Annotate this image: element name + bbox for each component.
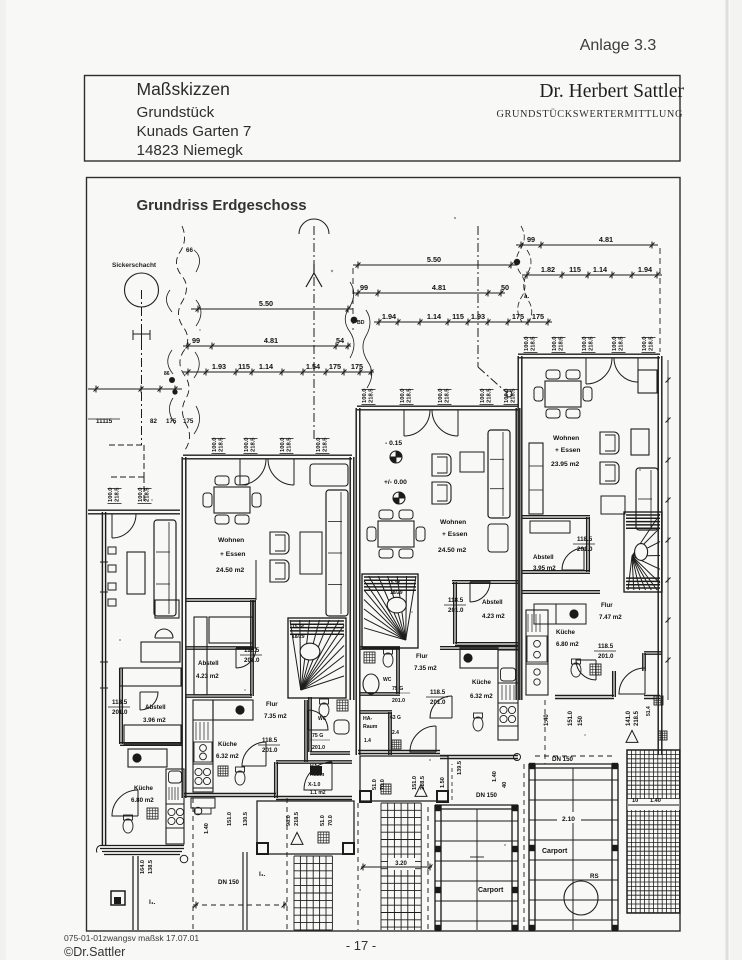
svg-text:Abstell: Abstell: [533, 554, 554, 561]
dashed line right of walkway B: [427, 807, 429, 930]
svg-text:218.5: 218.5: [369, 388, 375, 403]
svg-text:118.5: 118.5: [112, 699, 128, 706]
unit C kitchen wall: [522, 590, 600, 592]
svg-text:100.0: 100.0: [524, 336, 530, 351]
header box: [85, 76, 681, 162]
svg-text:Carport: Carport: [542, 848, 568, 855]
svg-text:51.0: 51.0: [320, 815, 326, 826]
svg-text:Flur: Flur: [416, 653, 428, 660]
svg-text:Wohnen: Wohnen: [440, 519, 466, 526]
unit C porch hatch small: [654, 696, 663, 705]
svg-text:RS: RS: [590, 873, 599, 880]
svg-text:218.5: 218.5: [294, 812, 300, 826]
svg-text:X-1.0: X-1.0: [308, 782, 321, 788]
unit B outline walls: [357, 405, 518, 407]
carport C circle: [564, 881, 598, 915]
svg-text:+ Essen: + Essen: [555, 447, 580, 454]
unit C hatch: [590, 664, 601, 675]
svg-text:Abstell: Abstell: [482, 599, 503, 606]
svg-text:6.80 m2: 6.80 m2: [131, 797, 154, 804]
unit B kitchen walls: [440, 646, 518, 648]
unit A front wall: [184, 793, 276, 795]
svg-text:218.5: 218.5: [287, 437, 293, 452]
unit A inner wall living: [186, 598, 256, 600]
svg-text:201.0: 201.0: [312, 745, 325, 751]
svg-text:75 G: 75 G: [312, 733, 323, 739]
plan frame box: [87, 178, 681, 932]
svg-text:2.4: 2.4: [392, 730, 399, 736]
svg-text:Sickerschacht: Sickerschacht: [112, 262, 157, 269]
svg-text:82: 82: [150, 418, 157, 425]
svg-text:14823 Niemegk: 14823 Niemegk: [137, 142, 244, 159]
svg-text:218.5: 218.5: [634, 710, 640, 726]
carport C labels: [557, 812, 581, 823]
unit A wc room: [308, 697, 310, 752]
svg-text:51.0: 51.0: [372, 779, 378, 790]
carport C top bar: [529, 763, 618, 765]
svg-text:201.0: 201.0: [262, 747, 278, 754]
dim line A 99 4.81 54: [183, 345, 351, 347]
svg-text:118.5: 118.5: [448, 597, 464, 604]
porch platform B: [360, 756, 448, 801]
svg-text:86: 86: [164, 371, 170, 377]
svg-text:5.50: 5.50: [427, 255, 441, 264]
svg-text:63 G: 63 G: [390, 715, 401, 721]
unit D entry arc: [112, 514, 136, 538]
svg-text:1.50: 1.50: [440, 777, 446, 788]
terrace grid right: [627, 750, 680, 913]
unit A sofa: [310, 464, 348, 486]
dim line left edge: [88, 388, 182, 390]
svg-text:100.0: 100.0: [212, 437, 218, 452]
unit C kitchen door: [576, 660, 596, 680]
unit D sofa end box: [155, 600, 179, 618]
svg-text:2.10: 2.10: [562, 816, 575, 823]
unit B armchairs: [432, 454, 451, 476]
unit B hatch oval bottom: [392, 740, 401, 749]
svg-text:- 17 -: - 17 -: [346, 938, 376, 953]
unit B abstell walls: [452, 580, 518, 582]
unit A outline walls: [183, 454, 352, 456]
carport C center line: [572, 768, 574, 930]
unit B kitchen door: [430, 696, 452, 718]
svg-text:100.0: 100.0: [400, 388, 406, 403]
unit C stair: [624, 512, 662, 592]
dim line B 99 4.81 50: [353, 292, 505, 294]
unit C entry door arc: [619, 668, 645, 694]
svg-text:1.82: 1.82: [541, 265, 555, 274]
svg-text:18/29: 18/29: [390, 590, 403, 596]
axis line A-B boundary: [352, 268, 354, 330]
svg-text:1.14: 1.14: [427, 312, 442, 321]
unit D shelf row: [124, 725, 181, 744]
svg-text:BD: BD: [357, 320, 365, 326]
svg-text:115: 115: [238, 362, 250, 371]
unit B kitchen counters: [498, 650, 518, 740]
unit A entry arcs: [240, 459, 266, 485]
svg-text:l₁.: l₁.: [149, 899, 156, 906]
svg-text:118.5: 118.5: [577, 536, 593, 543]
unit C sideboard: [638, 370, 657, 393]
dashed property line A porch: [192, 798, 194, 930]
svg-text:201.0: 201.0: [598, 653, 614, 660]
unit A dining table: [214, 487, 250, 513]
svg-text:3.95 m2: 3.95 m2: [533, 565, 556, 572]
unit C abstell wall: [522, 515, 590, 517]
unit C abstell door: [562, 548, 584, 570]
unit D front wall steps: [100, 845, 184, 847]
svg-text:100.0: 100.0: [438, 388, 444, 403]
unit C right dim chain: [667, 360, 669, 700]
svg-text:51.4: 51.4: [646, 706, 652, 716]
svg-text:218.5: 218.5: [115, 487, 121, 502]
unit B ha-raum: [360, 710, 392, 712]
dim line B 5.50: [353, 264, 516, 266]
porch platform A: [257, 801, 354, 854]
svg-text:100.0: 100.0: [582, 336, 588, 351]
svg-text:218.5: 218.5: [219, 437, 225, 452]
unit C wardrobe strip: [529, 443, 543, 514]
svg-text:5.50: 5.50: [259, 299, 273, 308]
unit A ha dark box: [310, 766, 322, 775]
svg-text:3.20: 3.20: [395, 861, 407, 867]
svg-text:70.0: 70.0: [328, 815, 334, 826]
unit A armchairs: [270, 532, 289, 554]
svg-text:175: 175: [351, 362, 363, 371]
svg-text:DN 150: DN 150: [476, 792, 498, 799]
unit D table: [127, 552, 145, 594]
carport C posts: [529, 763, 535, 769]
svg-text:99: 99: [192, 336, 200, 345]
svg-text:Wohnen: Wohnen: [218, 537, 244, 544]
svg-text:118.5: 118.5: [430, 689, 446, 696]
svg-text:1.40: 1.40: [492, 771, 498, 782]
svg-text:99: 99: [360, 283, 368, 292]
svg-text:Abstell: Abstell: [145, 704, 166, 711]
dashed boundary B-C porch: [523, 764, 525, 930]
Sickerschacht circle: [125, 273, 159, 307]
unit A wc door: [308, 710, 328, 730]
svg-text:201.0: 201.0: [430, 699, 446, 706]
svg-text:Kunads Garten 7: Kunads Garten 7: [137, 123, 252, 140]
unit A entry door: [304, 762, 332, 790]
svg-text:6.32 m2: 6.32 m2: [216, 753, 239, 760]
svg-text:Abstell: Abstell: [198, 660, 219, 667]
carport C rungs: [529, 779, 618, 781]
svg-text:175: 175: [183, 418, 194, 425]
center axis line: [313, 226, 315, 440]
svg-text:Wohnen: Wohnen: [553, 435, 579, 442]
svg-text:Maßskizzen: Maßskizzen: [137, 79, 230, 99]
svg-text:HA-: HA-: [363, 716, 372, 722]
svg-text:+ Essen: + Essen: [442, 531, 467, 538]
svg-text:164.0: 164.0: [140, 860, 146, 874]
scan streak right margin: [726, 0, 729, 960]
svg-text:Flur: Flur: [266, 701, 278, 708]
svg-text:1.93: 1.93: [212, 362, 226, 371]
boundary step at D corner: [109, 444, 144, 446]
svg-text:201.0: 201.0: [577, 546, 593, 553]
svg-text:75 G: 75 G: [392, 686, 403, 692]
blob at C start: [514, 259, 520, 265]
svg-text:23.95 m2: 23.95 m2: [551, 461, 580, 468]
utility fork symbol: [133, 326, 150, 342]
small circle at B-C porch: [514, 754, 521, 761]
boundary squiggle marks: [166, 250, 201, 434]
unit C front walls: [555, 695, 614, 697]
unit B dining table: [378, 521, 414, 547]
unit C boiler: [571, 663, 581, 677]
svg-text:1.94: 1.94: [638, 265, 653, 274]
svg-text:6.80 m2: 6.80 m2: [556, 641, 579, 648]
unit B wc room: [360, 646, 400, 648]
unit D hatch wc: [147, 808, 158, 819]
svg-text:100.0: 100.0: [642, 336, 648, 351]
svg-text:DN 150: DN 150: [218, 879, 240, 886]
unit D sofa: [154, 520, 176, 616]
svg-text:218.5: 218.5: [559, 336, 565, 351]
boundary squiggle B-C: [516, 226, 532, 324]
svg-text:218.5: 218.5: [487, 388, 493, 403]
svg-text:GRUNDSTÜCKSWERTERMITTLUNG: GRUNDSTÜCKSWERTERMITTLUNG: [496, 108, 683, 120]
svg-text:15 St: 15 St: [292, 624, 304, 630]
svg-text:151.0: 151.0: [568, 710, 574, 726]
unit C coffee table: [631, 429, 649, 455]
svg-text:1.93: 1.93: [471, 312, 485, 321]
carport B center line: [476, 809, 478, 930]
small circle A steps: [194, 807, 202, 815]
unit A abstell: [186, 646, 254, 648]
svg-text:118.5: 118.5: [598, 643, 614, 650]
unit D walkway: [132, 856, 134, 930]
unit B front wall: [358, 750, 440, 752]
svg-text:100.0: 100.0: [552, 336, 558, 351]
svg-text:218.5: 218.5: [531, 336, 537, 351]
svg-text:130.5: 130.5: [243, 812, 249, 826]
unit B sofa: [488, 430, 510, 518]
unit B tv rect: [460, 452, 484, 472]
unit A hatch wc: [218, 766, 228, 776]
unit A ha-raum: [276, 760, 352, 762]
dim line C 99 4.81: [516, 244, 658, 246]
unit C tv rect: [601, 496, 625, 514]
svg-text:50: 50: [501, 283, 509, 292]
unit D arch door: [155, 629, 173, 638]
svg-text:18/29: 18/29: [292, 634, 305, 640]
svg-text:+/- 0.00: +/- 0.00: [384, 479, 407, 486]
svg-text:115: 115: [569, 265, 581, 274]
unit A kitchen counters: [193, 700, 213, 792]
unit D kitchen right column: [166, 769, 184, 844]
unit A stair: [288, 618, 346, 698]
svg-text:1.40: 1.40: [204, 823, 210, 834]
svg-text:10: 10: [632, 798, 638, 804]
junction blobs: [169, 377, 175, 383]
svg-text:175: 175: [166, 418, 177, 425]
dashed boundary below B porch: [357, 803, 359, 930]
svg-text:151.0: 151.0: [227, 812, 233, 826]
unit B stair: [362, 574, 418, 648]
svg-text:Küche: Küche: [472, 679, 491, 686]
svg-text:15 St: 15 St: [388, 580, 400, 586]
unit D shelf box: [141, 642, 180, 662]
unit D kitchen stove row: [128, 749, 167, 767]
grid walkway B: [381, 803, 421, 930]
axis line B-C: [477, 226, 479, 367]
svg-text:118.5: 118.5: [262, 737, 278, 744]
unit D abstell door: [140, 692, 158, 710]
svg-text:175: 175: [532, 312, 544, 321]
svg-text:1.94: 1.94: [382, 312, 397, 321]
unit C abstell shelf: [530, 521, 570, 533]
svg-text:Grundriss Erdgeschoss: Grundriss Erdgeschoss: [137, 197, 307, 214]
svg-text:Küche: Küche: [218, 741, 237, 748]
blob BD at A-B: [351, 317, 358, 324]
svg-text:7.35 m2: 7.35 m2: [414, 665, 437, 672]
svg-text:24.50 m2: 24.50 m2: [216, 567, 245, 574]
axis arrow: [306, 264, 322, 287]
svg-text:1.1 m2: 1.1 m2: [310, 790, 326, 796]
svg-text:100.0: 100.0: [612, 336, 618, 351]
unit C outline walls: [518, 353, 660, 355]
svg-text:218.5: 218.5: [589, 336, 595, 351]
unit D step: [111, 891, 125, 905]
unit B entry arcs: [404, 410, 430, 436]
unit C stove: [534, 604, 586, 624]
svg-text:WC: WC: [318, 716, 327, 722]
axis arc: [299, 219, 329, 234]
svg-text:Raum: Raum: [363, 724, 378, 730]
dim line C 1.82 115 1.14 1.94: [522, 274, 662, 276]
svg-text:a.: a.: [524, 293, 529, 300]
boundary dashes right of C: [659, 248, 661, 352]
svg-text:1.14: 1.14: [593, 265, 608, 274]
svg-text:DN 150: DN 150: [552, 756, 574, 763]
grid labels: [628, 799, 680, 810]
svg-text:1.40: 1.40: [650, 798, 661, 804]
unit C sofa: [636, 468, 658, 530]
walkway A: [242, 852, 244, 930]
svg-text:©Dr.Sattler: ©Dr.Sattler: [64, 945, 125, 959]
svg-text:100.0: 100.0: [108, 487, 114, 502]
svg-text:201.0: 201.0: [392, 698, 405, 704]
svg-text:100.0: 100.0: [138, 487, 144, 502]
dim line B details: [374, 321, 552, 323]
svg-text:7.47 m2: 7.47 m2: [599, 614, 622, 621]
svg-text:l₁.: l₁.: [259, 871, 266, 878]
svg-text:075-01-01zwangsv maßsk 17.07: 075-01-01zwangsv maßsk 17.07.01: [64, 933, 199, 943]
dim line A 5.50: [191, 308, 353, 310]
svg-text:141.0: 141.0: [626, 710, 632, 726]
svg-text:150: 150: [578, 715, 584, 726]
unit D left facade wall: [101, 512, 103, 846]
unit D top wall: [88, 509, 180, 511]
unit A kitchen door: [242, 742, 266, 766]
unit C dining table: [545, 381, 581, 407]
svg-text:1.14: 1.14: [259, 362, 274, 371]
svg-text:100.0: 100.0: [480, 388, 486, 403]
svg-text:115: 115: [452, 312, 464, 321]
carport B rails: [434, 805, 436, 930]
svg-text:100.0: 100.0: [316, 437, 322, 452]
svg-text:- 0.15: - 0.15: [385, 440, 402, 447]
svg-text:151.0: 151.0: [412, 776, 418, 790]
Sickerschacht axis line: [141, 290, 143, 445]
carport B top bar: [435, 804, 518, 806]
svg-text:Küche: Küche: [556, 629, 575, 636]
unit C kitchen counters: [526, 610, 548, 695]
svg-text:218.5: 218.5: [407, 388, 413, 403]
svg-text:Küche: Küche: [134, 785, 153, 792]
unit A tv rect: [300, 532, 322, 574]
svg-text:4.23 m2: 4.23 m2: [196, 673, 219, 680]
svg-text:175: 175: [329, 362, 341, 371]
svg-text:201.0: 201.0: [112, 709, 128, 716]
svg-text:4.81: 4.81: [264, 336, 278, 345]
svg-text:1.54: 1.54: [306, 362, 321, 371]
svg-text:WC: WC: [383, 677, 392, 683]
svg-text:66: 66: [186, 247, 193, 254]
unit D kitchen door: [112, 790, 138, 816]
svg-text:4.81: 4.81: [599, 235, 613, 244]
carport B posts: [435, 805, 441, 811]
unit D abstell walls: [119, 668, 121, 744]
svg-text:Grundstück: Grundstück: [137, 104, 215, 121]
carport C rails: [528, 764, 530, 930]
svg-text:Carport: Carport: [478, 887, 504, 894]
svg-text:4.81: 4.81: [432, 283, 446, 292]
svg-text:175: 175: [512, 312, 524, 321]
boundary squiggle left: [176, 226, 189, 450]
unit B entry door: [410, 726, 436, 752]
svg-text:218.5: 218.5: [323, 437, 329, 452]
svg-text:138.5: 138.5: [148, 860, 154, 874]
unit D left stubs: [108, 547, 116, 554]
svg-text:3.96 m2: 3.96 m2: [143, 717, 166, 724]
svg-text:218.5: 218.5: [649, 336, 655, 351]
svg-text:Anlage 3.3: Anlage 3.3: [580, 37, 657, 54]
svg-text:100.0: 100.0: [244, 437, 250, 452]
svg-text:+ Essen: + Essen: [220, 551, 245, 558]
svg-text:1.4: 1.4: [364, 738, 371, 744]
svg-text:218.5: 218.5: [145, 487, 151, 502]
svg-text:4.23 m2: 4.23 m2: [482, 613, 505, 620]
dim 3.20 across walkway: [388, 858, 415, 870]
svg-text:100.0: 100.0: [362, 388, 368, 403]
svg-text:40: 40: [502, 782, 508, 788]
svg-text:218.5: 218.5: [445, 388, 451, 403]
dim line A details: [183, 371, 374, 373]
unit C entry arcs: [586, 358, 612, 384]
svg-text:6.32 m2: 6.32 m2: [470, 693, 493, 700]
unit A porch steps: [191, 798, 215, 808]
unit D abstell top shelf: [120, 668, 181, 686]
dn150 line A: [193, 904, 287, 906]
grid walkway A: [294, 856, 332, 930]
unit C armchairs: [600, 432, 619, 454]
svg-text:99: 99: [527, 235, 535, 244]
svg-text:218.5: 218.5: [619, 336, 625, 351]
svg-text:7.35 m2: 7.35 m2: [264, 713, 287, 720]
svg-text:Flur: Flur: [601, 602, 613, 609]
svg-text:201.0: 201.0: [448, 607, 464, 614]
svg-text:Dr. Herbert Sattler: Dr. Herbert Sattler: [539, 81, 684, 102]
dashed boundary A-B porch: [286, 798, 288, 930]
carport B rungs: [435, 820, 518, 822]
svg-text:24.50 m2: 24.50 m2: [438, 547, 467, 554]
svg-text:139.5: 139.5: [457, 761, 463, 775]
svg-text:54: 54: [336, 336, 345, 345]
